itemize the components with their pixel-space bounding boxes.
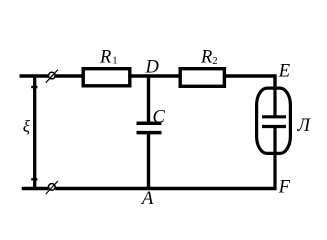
svg-text:1: 1	[112, 55, 117, 67]
svg-text:F: F	[278, 178, 291, 198]
svg-text:D: D	[145, 58, 160, 78]
svg-text:R: R	[200, 47, 212, 67]
svg-text:Л: Л	[297, 116, 312, 136]
svg-text:A: A	[140, 189, 154, 209]
svg-text:E: E	[278, 62, 290, 82]
svg-text:ξ: ξ	[23, 117, 31, 136]
svg-text:C: C	[153, 107, 166, 127]
svg-text:R: R	[99, 47, 111, 67]
svg-text:2: 2	[212, 55, 217, 67]
